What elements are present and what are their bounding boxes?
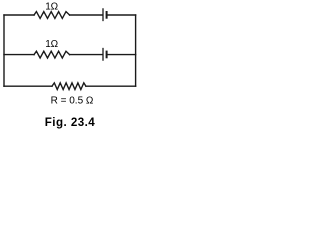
wire: middle branch, segment between R2 and cell — [70, 54, 103, 56]
svg-text:1Ω: 1Ω — [45, 1, 58, 12]
wire: middle branch, left segment — [4, 54, 34, 56]
wire: left rail — [3, 15, 5, 86]
wire: right rail — [135, 15, 137, 86]
battery cell E2 (middle branch) — [103, 49, 107, 61]
svg-text:R = 0.5 Ω: R = 0.5 Ω — [51, 96, 94, 107]
battery cell E1 (top branch) — [103, 9, 107, 21]
wire: bottom branch, left segment — [4, 85, 52, 87]
wire: bottom branch, right segment — [86, 85, 136, 87]
wire: top branch, left segment — [4, 14, 34, 16]
resistor R1 (1 ohm, top branch) — [34, 12, 70, 19]
resistor R (0.5 ohm, bottom branch) — [52, 83, 86, 90]
wire: middle branch, right segment — [108, 54, 136, 56]
wire: top branch, right segment — [108, 14, 136, 16]
resistor R2 (1 ohm, middle branch) — [34, 51, 70, 58]
wire: top branch, segment between R1 and cell — [70, 14, 103, 16]
svg-text:1Ω: 1Ω — [45, 39, 58, 50]
svg-text:Fig. 23.4: Fig. 23.4 — [45, 116, 96, 129]
